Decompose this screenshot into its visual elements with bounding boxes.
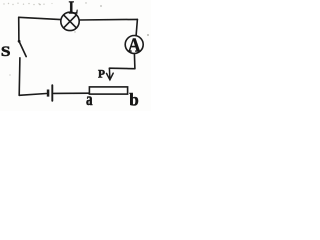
svg-text:P: P xyxy=(98,67,105,80)
svg-text:S: S xyxy=(1,44,11,60)
svg-text:L: L xyxy=(69,0,79,18)
svg-text:A: A xyxy=(128,35,141,57)
svg-text:a: a xyxy=(86,90,93,109)
svg-text:b: b xyxy=(129,89,139,110)
